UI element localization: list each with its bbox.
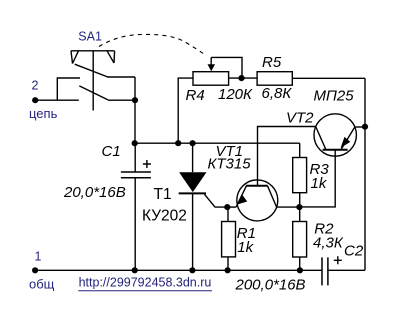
wire C2 right lead [328, 269, 365, 271]
svg-text:SA1: SA1 [78, 30, 102, 44]
wire VT2 emitter lead [355, 126, 365, 128]
junction top bus and T1 anode [190, 140, 196, 146]
svg-text:КТ315: КТ315 [208, 156, 252, 173]
junction bottom bus and C1 [132, 267, 138, 273]
svg-text:6,8К: 6,8К [262, 85, 293, 102]
svg-text:C1: C1 [102, 143, 121, 160]
svg-text:4,3К: 4,3К [313, 234, 344, 251]
dashed mechanical link SA1 to R4 [99, 34, 205, 54]
svg-text:цепь: цепь [29, 106, 58, 121]
resistor R1 body [222, 222, 236, 257]
wire right rail [364, 78, 366, 270]
wire pole 1 fixed contact to right rail [107, 76, 135, 78]
svg-text:1: 1 [35, 250, 42, 264]
wire R5 right lead [292, 77, 365, 79]
terminal 2 [32, 97, 38, 103]
resistor R5 body [257, 72, 292, 86]
hyperlink underline [78, 290, 212, 292]
potentiometer R4 body [193, 72, 229, 86]
transistor VT1 emitter arrow [236, 195, 247, 205]
svg-text:200,0*16В: 200,0*16В [235, 276, 306, 293]
potentiometer R4 wiper [211, 57, 242, 78]
transistor VT2 base bar [323, 149, 348, 151]
svg-text:Т1: Т1 [154, 186, 172, 203]
svg-text:R5: R5 [262, 54, 282, 71]
wire T1 cathode lead [192, 193, 194, 270]
wire VT1 collector to node [277, 206, 300, 208]
svg-text:2: 2 [32, 79, 39, 93]
transistor VT2 emitter arrow [341, 137, 351, 148]
svg-text:1k: 1k [311, 175, 328, 192]
switch SA1 pole 2 blade [79, 86, 108, 100]
wire VT1 base to VT2 collector [258, 127, 316, 186]
svg-text:http://299792458.3dn.ru: http://299792458.3dn.ru [79, 276, 212, 290]
junction R3, R2, VT1 collector, VT2 base [296, 204, 302, 210]
wire terminal 2 to switch [35, 99, 79, 101]
thyristor T1 gate wire [205, 194, 228, 207]
terminal 1 [32, 267, 38, 273]
potentiometer R4 wiper arrow [208, 64, 216, 71]
junction bottom bus and R1 [225, 267, 231, 273]
transistor VT2 emitter [341, 127, 355, 149]
transistor VT1 body circle [237, 180, 278, 221]
wire C1 top lead [134, 143, 136, 172]
junction R4 wiper [238, 75, 244, 81]
wire bottom bus [35, 269, 322, 271]
wire VT1 emitter to node [227, 206, 236, 208]
transistor VT2 collector [316, 127, 326, 150]
junction bottom bus and T1 cathode [189, 267, 195, 273]
svg-text:R4: R4 [186, 87, 205, 104]
capacitor C1 polarity plus [143, 160, 151, 168]
thyristor T1 triangle [179, 172, 206, 192]
wire R3 bottom lead [299, 193, 301, 207]
svg-text:КУ202: КУ202 [142, 207, 187, 224]
wire VT2 base to R2-R3 node [299, 150, 335, 207]
junction right rail and VT2 emitter [362, 124, 368, 130]
svg-text:120К: 120К [218, 86, 253, 103]
svg-text:С2: С2 [344, 243, 364, 260]
switch SA1 actuator rod [92, 51, 94, 111]
transistor VT2 body circle [314, 114, 356, 156]
svg-text:общ: общ [29, 277, 55, 292]
svg-text:VT2: VT2 [286, 109, 314, 126]
wire R1 bottom lead [227, 257, 229, 270]
wire T1 anode lead [192, 143, 194, 172]
wire pole 1 input arm [57, 78, 80, 100]
svg-text:МП25: МП25 [314, 87, 355, 104]
junction top bus and R4 lead [175, 140, 181, 146]
wire pole 2 fixed contact [108, 99, 135, 101]
transistor VT1 base bar [246, 185, 268, 187]
junction switch output and terminal wire [132, 97, 138, 103]
transistor VT1 collector [268, 186, 277, 207]
wire R3 top lead [299, 143, 301, 157]
resistor R2 body [293, 222, 307, 258]
svg-text:20,0*16В: 20,0*16В [63, 184, 126, 201]
switch SA1 actuator bracket [71, 51, 115, 64]
junction top bus and C1 [132, 140, 138, 146]
wire R4 left lead [178, 78, 193, 143]
capacitor C1 plates [121, 172, 151, 178]
svg-text:1k: 1k [237, 239, 254, 256]
wire R1 top lead [227, 207, 229, 221]
junction bottom bus and R2 [297, 267, 303, 273]
resistor R3 body [293, 158, 307, 193]
transistor VT1 emitter [236, 186, 246, 207]
wire R2 top lead [299, 207, 301, 221]
wire C1 bottom lead [134, 178, 136, 271]
capacitor C2 polarity plus [334, 256, 342, 264]
wire R2 bottom lead [299, 257, 301, 270]
thyristor T1 cathode bar [179, 192, 206, 194]
wire switch output rail [134, 77, 136, 143]
capacitor C2 plates [322, 257, 328, 285]
wire R4 to R5 [229, 77, 258, 79]
wire top bus [135, 142, 300, 144]
switch SA1 pole 1 blade [75, 64, 108, 77]
junction T1 gate, VT1 emitter, R1 [224, 204, 230, 210]
